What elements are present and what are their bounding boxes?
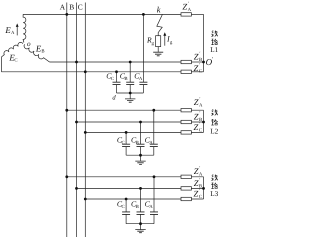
svg-text:L3: L3 <box>210 190 218 198</box>
node L3 neutral <box>202 187 205 190</box>
capacitor CB L3 lead <box>140 188 142 223</box>
L2 ground <box>135 161 145 164</box>
L2 ground stem <box>140 155 142 161</box>
svg-text:A: A <box>199 102 203 108</box>
wire L3 phase A <box>67 176 181 178</box>
impedance Z'C L3 box <box>181 197 191 200</box>
impedance Z'C L2 box <box>181 131 191 134</box>
junction L1 rail ground <box>129 92 132 95</box>
junction L3 rail ground <box>139 222 142 225</box>
svg-text:B: B <box>41 48 44 54</box>
wire L2 phase B <box>77 121 182 123</box>
capacitor CC L3 lead <box>125 199 127 224</box>
impedance Z'B L2 box <box>181 120 191 123</box>
L3 ground <box>135 230 145 233</box>
svg-text:C: C <box>199 68 202 74</box>
label xian (line) L3 char1 <box>211 175 217 181</box>
junction CA L1 tap <box>142 13 145 16</box>
junction bus C / L2 <box>84 131 87 134</box>
label lu (road) L2 char2 <box>211 119 218 125</box>
L1 ground stem <box>129 93 131 99</box>
svg-text:′: ′ <box>199 166 200 172</box>
capacitor CA L2 plates <box>150 144 158 146</box>
wire Rg to ground <box>157 47 159 52</box>
svg-text:L2: L2 <box>210 127 218 135</box>
svg-text:′: ′ <box>199 122 200 128</box>
svg-text:B: B <box>136 204 139 210</box>
wire phase C (EC to Z'C box) <box>1 71 181 73</box>
bus A <box>66 3 68 238</box>
wire L2 phase C <box>85 131 181 133</box>
svg-text:C: C <box>78 3 83 12</box>
junction bus A / L3 <box>65 175 68 178</box>
L2 capacitor common rail <box>126 154 154 156</box>
line L1 right vertical <box>203 14 205 71</box>
svg-text:′: ′ <box>199 111 200 117</box>
node L2 neutral <box>202 121 205 124</box>
svg-text:B: B <box>136 140 139 146</box>
svg-text:C: C <box>111 76 114 82</box>
label lu (road) L1 char2 <box>211 39 218 45</box>
svg-text:k: k <box>157 5 161 15</box>
svg-text:A: A <box>139 76 143 82</box>
capacitor CB L1 plates <box>126 82 134 84</box>
svg-text:B: B <box>199 57 202 63</box>
ground below Rg <box>153 52 163 56</box>
resistor Rg box <box>156 36 161 47</box>
capacitor CB L3 plates <box>137 212 145 215</box>
impedance Z'A L2 box <box>181 109 191 112</box>
wire phase A top <box>23 13 181 15</box>
EA arrowhead <box>16 23 19 27</box>
L3 capacitor common rail <box>126 223 154 225</box>
label xian (line) L2 char1 <box>211 109 217 115</box>
L2 wires to right vertical <box>191 110 203 132</box>
wire L3 phase B <box>77 187 182 189</box>
wire Z'A to corner <box>191 13 203 15</box>
junction bus B / L2 <box>75 121 78 124</box>
impedance Z'B L3 box <box>181 187 191 190</box>
svg-text:A: A <box>188 7 192 13</box>
svg-text:′: ′ <box>199 51 200 57</box>
generator winding EC <box>1 42 23 71</box>
junction bus B / L3 <box>75 187 78 190</box>
svg-text:A: A <box>60 3 66 12</box>
svg-text:L1: L1 <box>210 46 218 54</box>
capacitor CA L2 lead <box>153 110 155 155</box>
capacitor CA L3 lead <box>153 177 155 224</box>
junction CB L2 tap <box>139 121 142 124</box>
junction bus A / L2 <box>65 109 68 112</box>
svg-text:′: ′ <box>188 1 189 7</box>
svg-text:B: B <box>124 76 127 82</box>
wire phase B (EB to Z'B box) <box>50 61 182 63</box>
impedance Z'A L3 box <box>181 175 191 178</box>
L1 ground d <box>125 99 135 102</box>
svg-text:′: ′ <box>199 177 200 183</box>
junction CC L3 tap <box>125 198 128 201</box>
bus C <box>84 3 86 238</box>
Ig current arrow <box>164 35 166 45</box>
svg-text:A: A <box>149 140 153 146</box>
svg-text:C: C <box>14 58 17 64</box>
impedance Z'C L1 box <box>181 70 191 73</box>
capacitor CC L1 lead <box>116 72 118 93</box>
L3 ground stem <box>140 224 142 230</box>
junction L2 rail ground <box>139 154 142 157</box>
svg-text:A: A <box>11 30 15 36</box>
svg-text:′: ′ <box>199 188 200 194</box>
label lu (road) L3 char2 <box>211 183 218 189</box>
capacitor CB L2 lead <box>140 122 142 155</box>
L1 capacitor common rail <box>117 92 144 94</box>
impedance Z'A L1 box <box>181 13 191 16</box>
wire Z'B to O' <box>191 61 203 63</box>
capacitor CB L2 plates <box>137 144 145 146</box>
label xian (line) L1 char1 <box>211 31 217 37</box>
capacitor CA L1 lead <box>142 14 144 93</box>
svg-text:C: C <box>199 128 202 134</box>
svg-text:B: B <box>69 3 74 12</box>
capacitor CA L1 plates <box>139 82 147 84</box>
svg-text:o: o <box>27 40 31 48</box>
junction bus C / EC <box>84 70 87 73</box>
junction bus C / L3 <box>84 198 87 201</box>
junction CC L1 tap <box>115 70 118 73</box>
capacitor CC L2 lead <box>125 132 127 155</box>
wire Z'C to L1 vertical <box>191 71 203 73</box>
svg-text:C: C <box>122 140 125 146</box>
svg-text:A: A <box>149 204 153 210</box>
capacitor CB L1 lead <box>129 62 131 93</box>
junction CA L2 tap <box>152 109 155 112</box>
capacitor CC L2 plates <box>122 144 130 146</box>
generator winding EA <box>23 14 26 42</box>
junction CC L2 tap <box>125 131 128 134</box>
svg-text:′: ′ <box>199 62 200 68</box>
generator winding EB <box>24 44 49 62</box>
L3 wires to right vertical <box>191 177 203 199</box>
wire L3 phase C <box>85 198 181 200</box>
wire L2 phase A <box>67 109 181 111</box>
line L3 right vertical <box>203 177 205 199</box>
node O' <box>202 61 205 64</box>
junction bus A / EA <box>65 13 68 16</box>
junction CA L3 tap <box>153 175 156 178</box>
capacitor CC L3 plates <box>122 212 130 215</box>
EA phasor arrow <box>16 27 18 36</box>
impedance Z'B L1 box <box>181 60 191 63</box>
junction bus B / EB <box>75 61 78 64</box>
junction CB L3 tap <box>139 187 142 190</box>
capacitor CA L3 plates <box>150 212 158 215</box>
junction CB L1 tap <box>129 61 132 64</box>
capacitor CC L1 plates <box>113 82 121 84</box>
Ig arrowhead <box>163 32 166 36</box>
line L2 right vertical <box>203 110 205 132</box>
fault lightning bolt k <box>157 15 163 36</box>
svg-text:A: A <box>199 172 203 178</box>
bus B <box>76 3 78 238</box>
svg-text:′: ′ <box>199 96 200 102</box>
svg-text:C: C <box>199 194 202 200</box>
svg-text:C: C <box>122 204 125 210</box>
